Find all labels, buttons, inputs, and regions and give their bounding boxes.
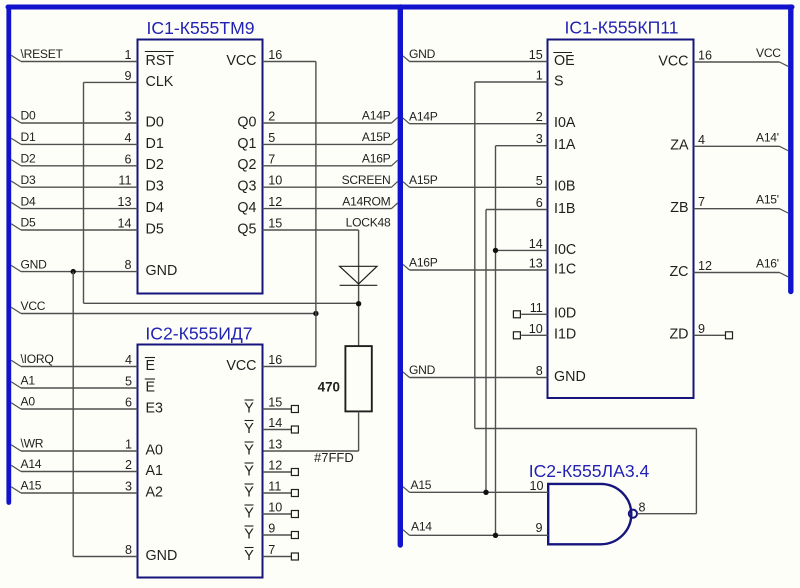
svg-text:VCC: VCC (226, 53, 256, 69)
svg-text:15: 15 (268, 396, 282, 410)
svg-text:7: 7 (268, 543, 275, 557)
svg-text:Y: Y (244, 442, 254, 458)
svg-text:15: 15 (268, 217, 282, 231)
svg-text:E: E (146, 358, 156, 374)
svg-text:A15: A15 (411, 478, 432, 492)
svg-text:Y: Y (244, 400, 254, 416)
svg-text:6: 6 (124, 152, 131, 166)
svg-text:\IORQ: \IORQ (21, 352, 54, 366)
svg-text:D0: D0 (21, 109, 36, 123)
svg-text:8: 8 (639, 501, 646, 515)
svg-text:VCC: VCC (21, 299, 46, 313)
svg-text:I1C: I1C (554, 261, 576, 277)
svg-text:E: E (146, 379, 156, 395)
svg-text:D3: D3 (21, 173, 36, 187)
svg-text:\RESET: \RESET (21, 47, 64, 61)
svg-text:A14: A14 (411, 520, 432, 534)
svg-text:4: 4 (698, 133, 705, 147)
svg-text:A15': A15' (756, 193, 779, 207)
svg-text:GND: GND (146, 263, 178, 279)
svg-text:A0: A0 (21, 395, 36, 409)
svg-text:Q2: Q2 (237, 157, 256, 173)
svg-text:A15P: A15P (409, 173, 438, 187)
svg-text:ZA: ZA (670, 138, 689, 154)
svg-text:\WR: \WR (21, 437, 44, 451)
svg-text:ZB: ZB (670, 200, 688, 216)
svg-text:IC2-К555ЛА3.4: IC2-К555ЛА3.4 (529, 461, 650, 481)
svg-text:ZC: ZC (669, 264, 688, 280)
svg-text:IC1-К555ТМ9: IC1-К555ТМ9 (146, 18, 254, 38)
svg-text:12: 12 (698, 259, 712, 273)
svg-text:LOCK48: LOCK48 (346, 216, 391, 230)
svg-text:470: 470 (318, 380, 340, 395)
svg-text:A16': A16' (756, 257, 779, 271)
svg-text:2: 2 (125, 458, 132, 472)
svg-text:10: 10 (529, 479, 543, 493)
svg-text:A2: A2 (146, 484, 164, 500)
svg-text:6: 6 (536, 196, 543, 210)
svg-text:3: 3 (125, 480, 132, 494)
svg-text:RST: RST (146, 53, 175, 69)
svg-text:E3: E3 (146, 400, 164, 416)
svg-text:1: 1 (536, 69, 543, 83)
svg-text:7: 7 (268, 152, 275, 166)
svg-text:3: 3 (536, 132, 543, 146)
svg-text:11: 11 (530, 301, 543, 315)
svg-text:GND: GND (21, 257, 48, 271)
svg-text:Y: Y (244, 421, 254, 437)
svg-text:VCC: VCC (756, 46, 781, 60)
svg-text:5: 5 (268, 131, 275, 145)
svg-text:15: 15 (529, 48, 543, 62)
svg-text:9: 9 (124, 69, 131, 83)
svg-text:12: 12 (268, 195, 282, 209)
svg-text:S: S (554, 73, 564, 89)
svg-text:Y: Y (244, 548, 254, 564)
svg-text:9: 9 (268, 522, 275, 536)
svg-text:Q5: Q5 (237, 221, 256, 237)
svg-text:OE: OE (554, 53, 575, 69)
svg-text:8: 8 (124, 258, 131, 272)
svg-text:I1D: I1D (554, 327, 576, 343)
svg-text:D5: D5 (146, 221, 164, 237)
svg-text:A15P: A15P (362, 130, 391, 144)
svg-text:D5: D5 (21, 216, 36, 230)
svg-text:GND: GND (554, 369, 586, 385)
svg-text:GND: GND (409, 47, 436, 61)
svg-text:Y: Y (244, 463, 254, 479)
svg-text:I0B: I0B (554, 179, 575, 195)
svg-text:8: 8 (125, 543, 132, 557)
svg-text:IC2-К555ИД7: IC2-К555ИД7 (145, 324, 252, 344)
svg-text:2: 2 (268, 110, 275, 124)
svg-text:CLK: CLK (146, 74, 174, 90)
svg-text:Q0: Q0 (237, 114, 256, 130)
svg-text:I0A: I0A (554, 115, 576, 131)
svg-text:6: 6 (125, 396, 132, 410)
svg-text:2: 2 (536, 110, 543, 124)
svg-text:1: 1 (125, 438, 132, 452)
svg-text:D4: D4 (146, 200, 164, 216)
svg-text:11: 11 (268, 480, 281, 494)
svg-text:14: 14 (529, 237, 543, 251)
svg-text:A16P: A16P (362, 152, 391, 166)
svg-text:16: 16 (268, 353, 282, 367)
svg-text:9: 9 (535, 521, 542, 535)
svg-text:D1: D1 (21, 130, 36, 144)
svg-text:A0: A0 (146, 442, 164, 458)
svg-text:A15: A15 (21, 479, 42, 493)
svg-text:A14: A14 (21, 457, 42, 471)
svg-text:A16P: A16P (409, 256, 438, 270)
svg-text:Q3: Q3 (237, 179, 256, 195)
svg-text:SCREEN: SCREEN (342, 173, 391, 187)
svg-text:A14P: A14P (362, 109, 391, 123)
svg-text:ZD: ZD (669, 327, 688, 343)
svg-text:14: 14 (268, 416, 282, 430)
svg-text:A1: A1 (146, 463, 164, 479)
svg-text:14: 14 (117, 217, 131, 231)
svg-text:11: 11 (118, 174, 131, 188)
svg-text:I1A: I1A (554, 137, 576, 153)
svg-text:10: 10 (529, 322, 543, 336)
svg-text:I1B: I1B (554, 201, 575, 217)
svg-text:GND: GND (146, 548, 178, 564)
svg-text:Q4: Q4 (237, 200, 256, 216)
svg-text:D1: D1 (146, 136, 164, 152)
svg-text:13: 13 (117, 195, 131, 209)
svg-text:3: 3 (124, 110, 131, 124)
svg-text:D4: D4 (21, 194, 36, 208)
svg-text:9: 9 (698, 322, 705, 336)
svg-text:Y: Y (244, 526, 254, 542)
svg-text:I0C: I0C (554, 242, 576, 258)
svg-text:D3: D3 (146, 179, 164, 195)
svg-text:7: 7 (698, 195, 705, 209)
svg-text:8: 8 (536, 364, 543, 378)
svg-text:VCC: VCC (658, 53, 688, 69)
svg-text:I0D: I0D (554, 306, 576, 322)
svg-text:10: 10 (268, 501, 282, 515)
svg-text:Y: Y (244, 484, 254, 500)
svg-text:Q1: Q1 (237, 136, 256, 152)
svg-text:D0: D0 (146, 114, 164, 130)
svg-text:D2: D2 (21, 152, 36, 166)
svg-text:16: 16 (698, 49, 712, 63)
svg-text:IC1-К555КП11: IC1-К555КП11 (565, 18, 679, 38)
svg-text:1: 1 (124, 48, 131, 62)
svg-text:16: 16 (268, 48, 282, 62)
svg-text:GND: GND (409, 363, 436, 377)
svg-text:5: 5 (125, 375, 132, 389)
svg-text:VCC: VCC (226, 358, 256, 374)
svg-text:Y: Y (244, 505, 254, 521)
svg-text:4: 4 (124, 131, 131, 145)
svg-text:10: 10 (268, 174, 282, 188)
svg-text:13: 13 (529, 257, 543, 271)
svg-text:#7FFD: #7FFD (314, 450, 354, 465)
svg-text:A14P: A14P (409, 109, 438, 123)
svg-text:D2: D2 (146, 157, 164, 173)
svg-text:A1: A1 (21, 374, 36, 388)
svg-text:5: 5 (536, 174, 543, 188)
svg-text:A14ROM: A14ROM (342, 194, 390, 208)
svg-text:13: 13 (268, 438, 282, 452)
svg-text:A14': A14' (756, 130, 779, 144)
svg-text:4: 4 (125, 353, 132, 367)
svg-text:12: 12 (268, 459, 282, 473)
